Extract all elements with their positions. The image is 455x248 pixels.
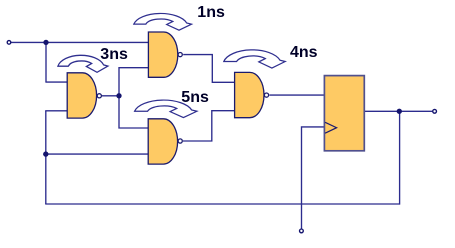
nand gate B (1ns) bbox=[148, 32, 182, 77]
junction J1 bbox=[43, 40, 48, 45]
nand gate D (4ns) bbox=[235, 72, 269, 117]
wire: gate A output bubble to junction J2 bbox=[102, 95, 119, 97]
clock triangle bbox=[325, 122, 337, 133]
wire: gate C output to gate D bottom input bbox=[183, 111, 235, 141]
svg-text:4ns: 4ns bbox=[290, 44, 318, 61]
delay arrow for 4ns bbox=[224, 50, 285, 68]
wire: bottom rail y=204 bbox=[45, 203, 399, 205]
wire: gate B output to gate D top input bbox=[183, 55, 235, 83]
delay arrow for 1ns bbox=[134, 13, 192, 30]
wire: junction J5 to gate C bottom input, y=154.1 bbox=[46, 153, 149, 155]
nand gate C (5ns) bbox=[148, 119, 182, 164]
wire: into gate A bottom input bbox=[45, 110, 68, 112]
junction J2 (gate A output node) bbox=[116, 93, 121, 98]
nand gate A (3ns) bbox=[67, 73, 101, 118]
svg-text:3ns: 3ns bbox=[100, 46, 128, 63]
wire: FF clock input down to bottom terminal T2 bbox=[302, 127, 325, 229]
junction J6 (output node) bbox=[397, 109, 402, 114]
terminal T2 (clock, bottom) bbox=[300, 229, 304, 233]
delay arrow for 5ns bbox=[135, 100, 197, 118]
wire: into gate A top input bbox=[45, 81, 67, 83]
wire: input terminal T1 to gate B top input, y=42.4 bbox=[11, 41, 149, 43]
wire: gate D output to FF data input bbox=[269, 94, 324, 96]
terminal T1 (input, left) bbox=[7, 41, 11, 45]
terminal T3 (output, right) bbox=[433, 109, 437, 113]
wire: junction J1 down toward gate A top input bbox=[45, 42, 47, 82]
wire: right vertical x=399.6 from bottom rail up to output net bbox=[399, 111, 401, 204]
wire: left vertical rail x=45.8 bbox=[45, 111, 47, 204]
wire: J2 up to gate B bottom input bbox=[119, 68, 149, 96]
junction J5 (left rail node) bbox=[43, 151, 48, 156]
delay arrow for 3ns bbox=[58, 55, 108, 72]
wire: FF output to terminal T3, y=111.3 bbox=[364, 110, 432, 112]
svg-text:5ns: 5ns bbox=[181, 89, 209, 106]
flip-flop U1 bbox=[324, 76, 364, 151]
svg-text:1ns: 1ns bbox=[197, 4, 225, 21]
wire: J2 down to gate C top input bbox=[119, 96, 149, 128]
